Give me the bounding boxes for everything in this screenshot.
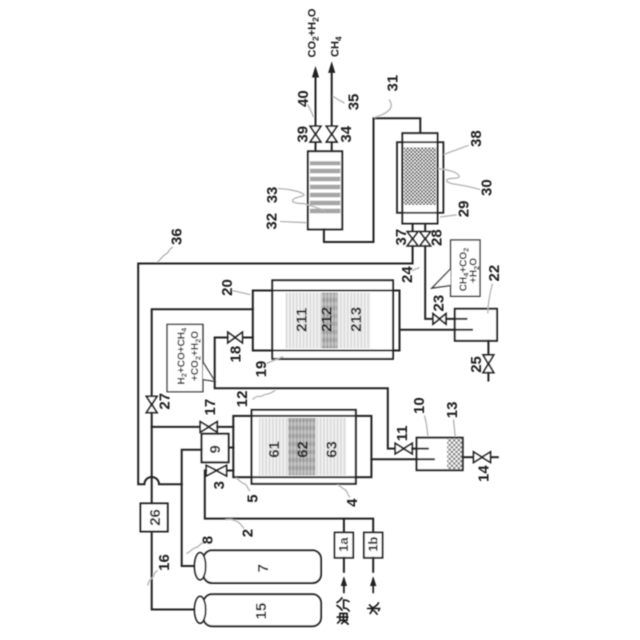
svg-text:15: 15 [253, 603, 270, 620]
gas cylinder 15 [204, 594, 322, 626]
svg-text:38: 38 [468, 130, 485, 147]
svg-text:5: 5 [245, 494, 262, 502]
svg-text:32: 32 [263, 213, 280, 230]
valve 3 [206, 465, 226, 476]
svg-text:35: 35 [345, 94, 362, 111]
svg-text:27: 27 [156, 393, 173, 410]
callout box H2+CO+CH4+CO2+H2O [167, 324, 215, 391]
arrow head CH4 [328, 61, 335, 73]
wire valve28 down to valve23 [425, 246, 433, 319]
heater zone 212 [322, 293, 338, 349]
leader 22 [488, 284, 493, 314]
valve 25 [483, 355, 494, 373]
svg-text:40: 40 [295, 90, 312, 107]
svg-text:7: 7 [255, 564, 272, 572]
svg-text:37: 37 [393, 229, 410, 246]
pump 1a [335, 533, 354, 558]
wire outlet CO2+H2O line 40 [315, 77, 317, 126]
leader 38 [444, 145, 469, 154]
wire pump 1a suction stub [343, 558, 345, 572]
svg-text:12: 12 [234, 391, 251, 408]
cooling coil 33 (striped fill) [310, 161, 340, 216]
svg-text:1a: 1a [336, 537, 351, 552]
leader 40 [308, 105, 314, 118]
valve 28 [420, 232, 431, 246]
kanji 分 [337, 598, 349, 611]
valve 37 [407, 232, 418, 246]
svg-text:+H2O: +H2O [468, 258, 480, 283]
leader 30 (wavy) [438, 169, 480, 190]
svg-text:36: 36 [168, 228, 185, 245]
svg-text:10: 10 [411, 397, 428, 414]
svg-text:34: 34 [338, 125, 355, 142]
svg-text:33: 33 [264, 187, 281, 204]
wire recycle line 36: valve37 down, left, down left side, hop, to junction [138, 246, 412, 484]
wire valve18 inlet pipe to tube 19 [242, 337, 252, 339]
wire outlet CH4 line 35 [331, 73, 333, 126]
svg-text:3: 3 [211, 481, 228, 489]
svg-text:211: 211 [293, 308, 310, 332]
svg-text:62: 62 [294, 441, 311, 458]
svg-text:16: 16 [156, 554, 173, 571]
wire 12: recycle from tank10 riser to valve 18 [215, 338, 396, 449]
valve 23 [433, 314, 446, 324]
arrow oil inlet [343, 579, 345, 592]
arrow head CO2+H2O [312, 66, 319, 78]
text labels (rotated) [147, 75, 503, 620]
wire adsorber bottom stub left [412, 224, 414, 232]
wire tube12 outlet into tank 10 [371, 458, 434, 460]
cracking tube 12/5 [233, 416, 371, 477]
wire valve27 down to flow controller 26 [151, 413, 153, 504]
svg-text:4: 4 [344, 498, 361, 507]
condenser vessel 32 [308, 151, 342, 229]
trap tank 22 [455, 309, 497, 341]
svg-text:2: 2 [239, 529, 256, 537]
wire valve11 into tank 10 [412, 448, 428, 450]
heater zone 63 [316, 418, 347, 475]
valve 14 [474, 452, 491, 463]
wire pump manifold to valve 3 [205, 471, 373, 533]
leader lines (light gray) [148, 96, 493, 586]
valve 27 [146, 396, 157, 412]
wire adsorber bottom stub right [424, 224, 426, 232]
svg-text:26: 26 [147, 509, 164, 526]
svg-text:CH4: CH4 [330, 36, 344, 57]
vaporizer box 9 [202, 434, 229, 463]
svg-text:23: 23 [431, 295, 448, 312]
svg-text:61: 61 [266, 441, 283, 458]
heater zone 211 [286, 293, 322, 349]
svg-text:11: 11 [394, 425, 411, 441]
leader 24 [412, 268, 420, 271]
kanji 油分 (oil) for pump 1a inlet [337, 598, 349, 624]
valve 18 [228, 332, 243, 343]
svg-text:9: 9 [207, 445, 224, 453]
leader 10 [425, 416, 428, 437]
wire valve39 to condenser 32 [315, 142, 317, 151]
furnace 20 [272, 280, 393, 359]
leader 4 (wavy) [338, 485, 351, 498]
wire valve17 to tube 12 [217, 426, 233, 428]
kanji 水 (water) for pump 1b inlet [368, 603, 380, 614]
wire H2 feed into tube 19 [152, 309, 253, 396]
wire box9 to tube 12 [229, 447, 234, 449]
valve 11 [395, 443, 412, 454]
leader 35 [333, 96, 345, 103]
svg-text:28: 28 [428, 229, 445, 246]
svg-text:213: 213 [348, 307, 365, 332]
leader 32 [280, 222, 307, 223]
valve 34 [326, 126, 337, 142]
reformer tube 19 [253, 291, 400, 351]
svg-text:1b: 1b [366, 537, 381, 552]
wire valve3 to tube 12 [227, 470, 234, 472]
wire pump 1a drop [343, 519, 345, 533]
arrow water inlet [372, 579, 374, 592]
wire box26 to cylinder 15 [152, 532, 195, 610]
leader 12 (wavy) [253, 390, 276, 400]
wire carrier gas pipe through valve 17 into tube 12 [152, 426, 201, 428]
leader 8 (wavy) [187, 543, 205, 554]
wire feed line into box 9 (from cylinder 7 and recycle 36) [182, 450, 202, 566]
callout box CH4+CO2+H2O [432, 240, 480, 296]
tank 10 [417, 438, 463, 471]
wire valve34 to condenser 32 [331, 142, 333, 151]
svg-text:14: 14 [475, 465, 492, 482]
svg-text:13: 13 [444, 402, 461, 419]
svg-text:29: 29 [456, 201, 473, 218]
valve 17 [200, 422, 217, 433]
svg-text:18: 18 [227, 346, 244, 363]
svg-text:20: 20 [219, 279, 236, 296]
heater zone 213 [338, 293, 371, 349]
leader 13 [453, 420, 455, 437]
wire tank10 to valve 14 [463, 456, 474, 458]
svg-text:+CO2+H2O: +CO2+H2O [190, 331, 202, 381]
cylinder 15 neck [195, 596, 206, 623]
svg-text:24: 24 [399, 266, 416, 283]
wire reformer tube outlet into tank 22 [400, 329, 473, 331]
leader 16 (wavy) [148, 571, 158, 586]
svg-text:30: 30 [479, 179, 496, 196]
wire condenser bottom to riser [324, 229, 374, 242]
leader 5 (wavy) [236, 478, 250, 491]
heater zone 61 [259, 418, 288, 475]
svg-text:19: 19 [253, 361, 270, 378]
leader 33 (wavy) [278, 189, 326, 212]
kanji 油 [337, 613, 348, 624]
adsorber vessel 29 [402, 133, 437, 223]
furnace 4 (cracking reactor 2) [252, 410, 356, 484]
svg-text:17: 17 [202, 399, 219, 416]
desiccant 13 (checkered) [447, 439, 462, 470]
svg-text:25: 25 [468, 356, 485, 373]
svg-text:63: 63 [324, 441, 341, 458]
svg-text:CH4+CO2: CH4+CO2 [458, 248, 470, 292]
cylinder 7 neck [195, 553, 206, 580]
leader 2 (wavy) [225, 519, 244, 528]
valve 39 [310, 126, 321, 142]
svg-text:CO2+H2O: CO2+H2O [307, 8, 321, 57]
wire tank22 bottom outlet [487, 341, 489, 355]
svg-text:8: 8 [200, 536, 217, 544]
jacket 38 [397, 142, 443, 213]
wire valve23 into tank 22 [446, 318, 467, 320]
leader 19 [267, 357, 284, 364]
adsorbent packing 30 (checkered) [404, 147, 436, 205]
svg-text:39: 39 [295, 126, 312, 143]
pump 1b [364, 533, 383, 558]
leader 36 (wavy) [157, 247, 173, 262]
heater zone 62 [288, 418, 315, 475]
pipe 31 riser to adsorber top [374, 118, 421, 242]
leader 29 [440, 215, 457, 217]
wire valve14 outlet stub [491, 456, 498, 458]
leader 20 [232, 291, 250, 295]
svg-text:212: 212 [319, 307, 336, 332]
leader 31 [374, 100, 391, 118]
wire pump 1b suction stub [372, 558, 374, 572]
wire valve25 outlet stub [487, 373, 489, 381]
svg-text:31: 31 [385, 75, 402, 92]
gas cylinder 7 [204, 550, 322, 583]
flow controller box 26 [141, 503, 168, 531]
svg-text:22: 22 [486, 265, 503, 282]
